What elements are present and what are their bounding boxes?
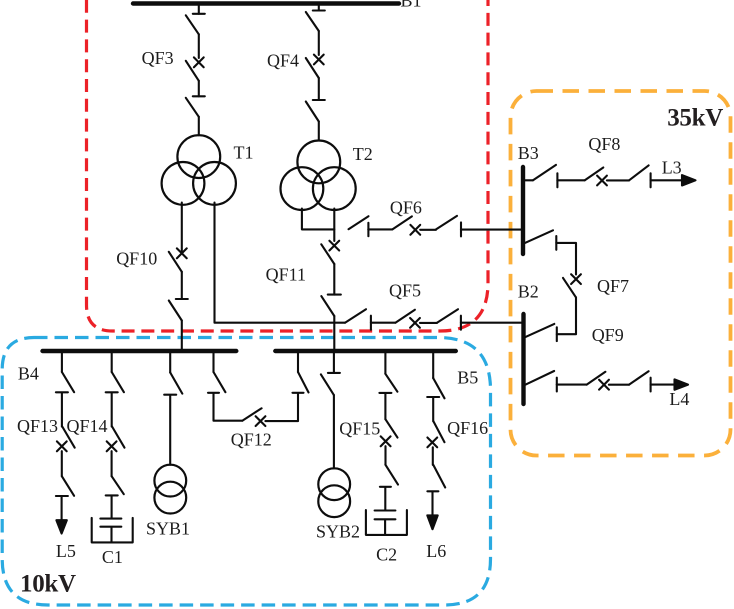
wire: B5 stub to QF12 [297, 353, 299, 372]
disconnector below QF14 [106, 476, 124, 495]
disconnector left of L4 chain [526, 371, 557, 392]
wire [61, 451, 63, 476]
breaker QF5 [395, 310, 420, 328]
svg-text:QF12: QF12 [231, 429, 272, 449]
svg-text:QF5: QF5 [389, 281, 421, 301]
svg-text:QF6: QF6 [390, 198, 422, 218]
bus B4 [43, 349, 237, 353]
svg-text:35kV: 35kV [667, 105, 723, 132]
wire: QF10 to bus B4 [181, 321, 183, 352]
wire: B4 stub SYB1 [169, 353, 171, 373]
wire [556, 243, 576, 275]
wire [265, 393, 298, 421]
breaker QF11 [321, 241, 339, 264]
svg-text:B1: B1 [401, 0, 422, 11]
disconnector below QF15 [380, 465, 398, 487]
wire and arrow to line L3 [651, 175, 696, 185]
disconnector right of QF8 [629, 165, 651, 187]
svg-text:L3: L3 [662, 157, 682, 177]
svg-text:QF4: QF4 [267, 51, 299, 71]
wire: B4 stub QF13 [61, 353, 63, 372]
disconnector right of QF5 [437, 309, 461, 330]
disconnector above QF16 [427, 378, 444, 398]
wire [111, 451, 113, 476]
disconnector below QF3 [186, 96, 205, 117]
svg-text:L6: L6 [426, 541, 446, 561]
wire [333, 353, 335, 468]
wire [432, 398, 434, 421]
breaker QF10 [169, 248, 187, 271]
svg-text:L5: L5 [56, 541, 76, 561]
svg-text:B4: B4 [18, 363, 39, 383]
bus B5 [275, 349, 456, 353]
wire: T2 left lead [302, 209, 334, 230]
svg-text:B5: B5 [457, 368, 478, 388]
disconnector below QF16 [427, 465, 445, 491]
disconnector right of QF6 [436, 216, 461, 237]
wire: B3 to QF8 [525, 179, 533, 181]
wire [214, 393, 243, 420]
svg-text:L4: L4 [669, 389, 689, 409]
disconnector left of QF12 [208, 372, 225, 393]
breaker QF16 [427, 421, 444, 447]
svg-text:QF11: QF11 [266, 265, 306, 285]
svg-text:C1: C1 [102, 547, 123, 567]
wire [181, 272, 183, 299]
wire and arrow to line L5 [56, 497, 66, 534]
wire [609, 384, 629, 386]
wire: T2 right lead [333, 209, 335, 242]
wire [198, 81, 200, 97]
wire [420, 322, 437, 324]
transformer T2 (three-winding) [281, 141, 356, 211]
wire: B5 stub QF15 [384, 353, 386, 374]
svg-text:SYB2: SYB2 [316, 522, 360, 542]
wire: QF5 to bus B2 [461, 322, 522, 324]
wire: B5 stub QF16 [432, 353, 434, 378]
svg-text:QF10: QF10 [116, 249, 157, 269]
wire [384, 446, 386, 465]
wire [318, 31, 320, 55]
wire: T1 left lead [181, 203, 183, 254]
svg-text:10kV: 10kV [20, 571, 76, 598]
region boundary: transformer zone (red dashed) [87, 0, 489, 331]
disconnector above QF14 [106, 372, 124, 392]
wire [198, 117, 200, 136]
wire [318, 122, 320, 141]
svg-text:SYB1: SYB1 [146, 518, 190, 538]
svg-text:B3: B3 [518, 143, 539, 163]
wire: T1 right lead down and tie line east [215, 203, 346, 323]
svg-text:QF8: QF8 [588, 134, 620, 154]
disconnector below QF10 [169, 299, 188, 321]
wire: B4 stub QF14 [111, 353, 113, 372]
svg-text:QF14: QF14 [66, 416, 107, 436]
wire [420, 229, 436, 231]
disconnector right of QF12 [293, 372, 309, 393]
wire [333, 264, 335, 295]
bus B1 [133, 1, 399, 5]
breaker QF15 [381, 419, 398, 446]
disconnector below QF11 [321, 295, 341, 316]
wire [169, 395, 171, 465]
disconnector left of QF8 [533, 165, 557, 187]
svg-text:QF9: QF9 [592, 325, 624, 345]
wire [371, 322, 396, 324]
wire: QF11 to bus B5 [333, 316, 335, 351]
wire [557, 384, 587, 386]
region boundary: 10kV zone (blue dashed) [2, 338, 490, 606]
transformer SYB2 (two-winding) [318, 468, 350, 517]
disconnector left of QF6 [349, 216, 369, 236]
wire [557, 179, 584, 181]
capacitor C1 [92, 518, 133, 543]
wire [607, 179, 629, 181]
disconnector below QF13 [56, 476, 74, 496]
bus B3 [521, 167, 525, 254]
disconnector above QF3 [186, 14, 205, 35]
svg-text:QF7: QF7 [597, 276, 629, 296]
disconnector above QF4 [306, 11, 325, 32]
svg-text:T1: T1 [234, 143, 254, 163]
breaker QF14 [107, 427, 125, 452]
wire [432, 447, 434, 465]
breaker QF4 [306, 55, 324, 78]
wire and arrow to line L4 [651, 379, 688, 389]
svg-text:B2: B2 [518, 282, 539, 302]
bus B2 [521, 314, 525, 404]
disconnector above QF15 [379, 374, 397, 393]
disconnector above QF13 [56, 372, 74, 392]
disconnector right on L4 feeder [629, 371, 651, 391]
svg-text:C2: C2 [376, 544, 397, 564]
disconnector below QF4 [306, 100, 325, 122]
disconnector left of QF5 [345, 309, 371, 330]
svg-text:QF15: QF15 [339, 418, 380, 438]
breaker QF3 [186, 57, 204, 80]
svg-text:QF13: QF13 [17, 416, 58, 436]
wire: QF6 to bus B3 [461, 229, 522, 231]
svg-text:QF16: QF16 [447, 418, 488, 438]
breaker QF13 [57, 427, 75, 452]
svg-text:QF3: QF3 [142, 48, 174, 68]
svg-text:T2: T2 [353, 144, 373, 164]
wire [111, 496, 113, 518]
capacitor C2 [366, 510, 407, 535]
disconnector above SYB2 [321, 373, 340, 395]
region boundary: 35kV zone (orange dashed) [511, 91, 731, 456]
wire [384, 487, 386, 510]
wire [557, 297, 576, 334]
breaker on L4 feeder [587, 372, 609, 390]
wire: B1 stub to QF4 column [318, 4, 320, 11]
breaker QF8 [585, 168, 607, 186]
wire [384, 393, 386, 419]
wire [368, 228, 392, 230]
disconnector QF9 [526, 324, 557, 341]
disconnector above SYB1 [164, 373, 182, 395]
wire [61, 393, 63, 427]
wire [318, 78, 320, 100]
wire [111, 393, 113, 427]
breaker QF12 (bus tie) [242, 408, 265, 426]
wire and arrow to line L6 [427, 492, 437, 529]
wire: B1 stub to QF3 column [198, 4, 200, 14]
wire [198, 34, 200, 58]
breaker QF6 [392, 216, 420, 234]
transformer SYB1 (two-winding) [154, 465, 186, 514]
transformer T1 (three-winding) [162, 135, 236, 205]
disconnector B3 to QF7 [525, 230, 556, 250]
wire: B4 stub to QF12 [212, 353, 214, 372]
breaker QF7 [563, 274, 581, 297]
